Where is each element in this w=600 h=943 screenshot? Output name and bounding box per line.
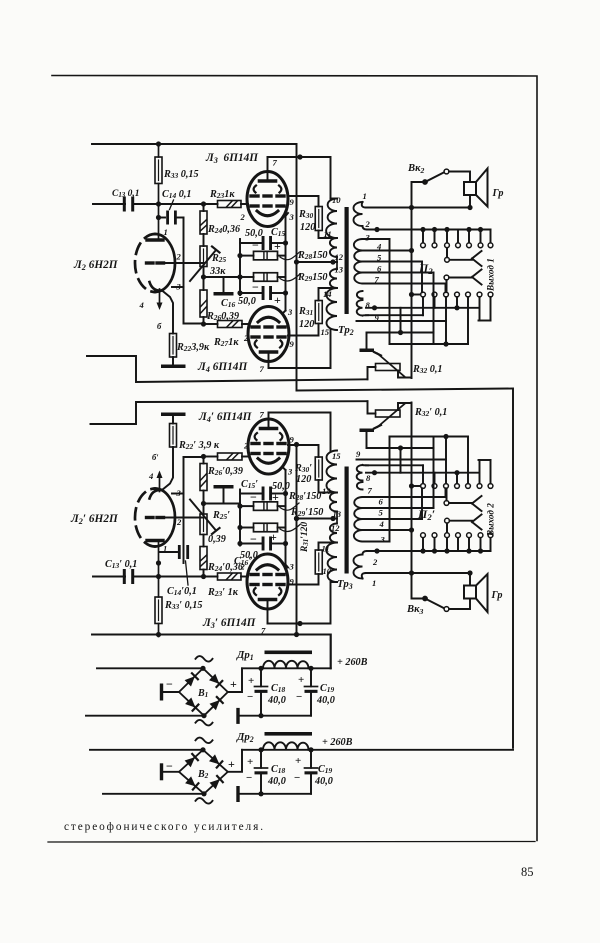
wire speaker feed <box>449 599 470 610</box>
wire R32 right lead <box>398 371 412 378</box>
resistor R28 <box>240 255 254 257</box>
speaker Gr box <box>464 182 476 195</box>
svg-text:1: 1 <box>372 578 376 588</box>
wire maze v389 <box>389 239 391 344</box>
svg-text:15: 15 <box>321 327 330 337</box>
svg-text:С18: С18 <box>271 764 286 775</box>
resistor R28 <box>240 505 254 507</box>
wire L3 anode to trafo <box>267 600 269 624</box>
wire maze v389 <box>389 437 391 542</box>
svg-text:6: 6 <box>379 497 384 507</box>
svg-text:12: 12 <box>331 523 340 533</box>
svg-text:+: + <box>228 757 235 771</box>
wire maze v400 <box>400 308 402 333</box>
svg-text:9: 9 <box>375 313 380 323</box>
label leader C14 ch1 <box>170 200 174 210</box>
capacitor C16 <box>240 543 262 545</box>
wire minus lead PSU1 <box>162 691 179 693</box>
speaker Gr horn <box>476 169 488 207</box>
diode of V1 <box>209 674 219 684</box>
svg-text:3: 3 <box>289 212 295 222</box>
resistor R30 <box>315 207 322 231</box>
wire center tap <box>297 261 338 263</box>
svg-text:14: 14 <box>322 486 331 496</box>
resistor R23 <box>218 573 242 580</box>
wire plus rail PSU2 <box>242 749 513 751</box>
svg-text:R28′150: R28′150 <box>288 491 321 502</box>
capacitor C15 <box>240 242 262 244</box>
svg-text:9: 9 <box>290 339 295 349</box>
output fork 1 <box>472 251 482 259</box>
svg-text:8: 8 <box>366 300 371 310</box>
wire AC input top PSU2 <box>90 749 203 751</box>
pentode tube L3 <box>247 172 288 227</box>
output fork 2 <box>472 270 482 278</box>
svg-text:б: б <box>157 321 162 331</box>
wire ground rail PSU1 <box>238 715 311 717</box>
switch P2 contact row lower <box>421 484 426 489</box>
resistor R25 variable <box>200 514 207 535</box>
wire L3 screen pin9 <box>288 196 319 207</box>
wire Vk pivot down <box>412 182 426 378</box>
switch Vk blade <box>422 596 428 602</box>
svg-text:+: + <box>270 530 277 544</box>
svg-text:С16: С16 <box>221 298 236 309</box>
switch P2 contact row upper <box>422 538 424 551</box>
svg-text:1: 1 <box>363 191 367 201</box>
svg-text:7: 7 <box>261 626 266 636</box>
svg-text:−: − <box>252 238 259 252</box>
resistor R27 <box>204 323 218 325</box>
transformer primary winding lower <box>327 269 338 330</box>
wire tap2 contact bus <box>363 226 368 230</box>
wire tap10 link <box>331 581 338 583</box>
wire tap8 <box>366 307 479 309</box>
svg-text:R33′ 0,15: R33′ 0,15 <box>164 600 202 611</box>
svg-text:R28150: R28150 <box>297 250 328 261</box>
wire R32 left lead <box>368 401 376 413</box>
label leader R29 <box>280 525 300 532</box>
wire tap5 <box>363 261 423 263</box>
svg-text:15: 15 <box>332 451 341 461</box>
wire Vk pivot down <box>412 403 426 599</box>
svg-text:−: − <box>252 280 259 294</box>
svg-text:2: 2 <box>240 562 246 572</box>
svg-text:П2′: П2′ <box>417 507 435 522</box>
wire R32 left lead <box>368 367 376 379</box>
svg-text:R33 0,15: R33 0,15 <box>163 169 199 180</box>
wire input <box>93 203 125 205</box>
choke Dr2 coil <box>263 742 309 749</box>
choke Dr1 coil <box>263 661 309 668</box>
wire maze v445 <box>445 488 447 497</box>
svg-text:2: 2 <box>372 557 378 567</box>
svg-text:R26′0,39: R26′0,39 <box>207 466 243 477</box>
svg-text:33к: 33к <box>209 266 226 277</box>
svg-text:12: 12 <box>335 252 344 262</box>
capacitor C18 PSU2 <box>260 750 262 768</box>
svg-text:R25: R25 <box>211 253 227 264</box>
svg-text:3: 3 <box>380 535 386 545</box>
minus terminal bar PSU1 <box>160 684 163 701</box>
svg-text:+: + <box>274 293 281 307</box>
page footer rule <box>48 841 535 844</box>
svg-text:R23′ 1к: R23′ 1к <box>207 587 239 598</box>
svg-text:11: 11 <box>322 544 330 554</box>
wire L4 screen pin9 <box>288 445 319 457</box>
svg-text:R271к: R271к <box>213 337 239 348</box>
transformer core <box>345 467 349 574</box>
resistor R26 <box>200 290 207 317</box>
svg-text:+: + <box>248 675 254 687</box>
svg-text:+: + <box>230 677 237 691</box>
svg-text:2: 2 <box>176 517 182 527</box>
capacitor C15 <box>240 493 262 495</box>
svg-text:120: 120 <box>296 474 311 485</box>
svg-text:5: 5 <box>379 508 384 518</box>
wire maze y344 <box>390 436 469 438</box>
resistor R22 <box>170 334 177 358</box>
wire line C <box>91 401 368 424</box>
wire grid node <box>158 204 160 240</box>
svg-text:Гр: Гр <box>492 188 504 199</box>
wire rail feed PSU1 <box>330 635 332 669</box>
AC tilde bottom PSU2 <box>196 798 213 804</box>
svg-text:40,0: 40,0 <box>316 695 335 706</box>
svg-text:R29150: R29150 <box>297 272 328 283</box>
wire tap3 <box>363 541 390 543</box>
switch P2 pivot 1 <box>445 518 450 523</box>
svg-text:С14 0,1: С14 0,1 <box>162 189 192 200</box>
svg-text:6: 6 <box>377 264 382 274</box>
wire tap7 <box>363 283 446 285</box>
capacitor C13 <box>123 197 126 212</box>
switch P2 pivot 2 <box>444 501 449 506</box>
resistor R33 <box>155 597 162 624</box>
label leader R29 <box>280 274 300 281</box>
output fork 2 <box>472 504 482 512</box>
svg-text:3: 3 <box>287 467 293 477</box>
switch P2 contact row upper <box>422 230 424 243</box>
svg-text:+: + <box>298 674 304 686</box>
capacitor C14 <box>160 551 177 553</box>
wire block left vertical <box>239 490 241 546</box>
wire L2 anode <box>164 262 204 264</box>
minus terminal bar PSU2 <box>160 763 163 780</box>
svg-text:9: 9 <box>290 577 295 587</box>
wire maze y321 <box>357 459 447 461</box>
svg-text:−: − <box>166 677 173 691</box>
switch P2 contact row lower <box>421 292 426 297</box>
transformer primary winding upper <box>326 199 337 258</box>
resistor R23 <box>218 201 242 208</box>
wire R25-R26 junction <box>203 267 205 291</box>
wire B+ vertical ch1 <box>296 144 298 391</box>
switch P2 pivot 2 <box>444 275 449 280</box>
wire R31 to tap14 <box>319 288 338 301</box>
wire L4 anode to trafo <box>268 352 270 368</box>
resistor R24 <box>200 211 207 234</box>
svg-text:9: 9 <box>290 435 295 445</box>
wire row2 stubs <box>434 297 436 308</box>
wire maze v422 <box>421 488 423 519</box>
svg-text:2: 2 <box>176 252 182 262</box>
label leader R28 <box>280 253 299 260</box>
svg-text:С15′: С15′ <box>241 479 258 490</box>
wire input to R23 <box>134 576 218 578</box>
svg-text:С13′ 0,1: С13′ 0,1 <box>105 559 137 570</box>
svg-text:40,0: 40,0 <box>267 695 286 706</box>
svg-text:2: 2 <box>240 212 246 222</box>
capacitor C18 PSU1 <box>260 668 262 686</box>
svg-text:+ 260В: + 260В <box>337 657 368 668</box>
svg-text:85: 85 <box>521 865 534 879</box>
wire tap4 <box>363 250 412 252</box>
diode of V1 <box>210 700 220 710</box>
wire plus lead PSU2 <box>228 750 242 772</box>
svg-text:3: 3 <box>176 282 182 292</box>
svg-text:Л4 6П14П: Л4 6П14П <box>197 361 248 374</box>
diode of V2 <box>209 754 220 764</box>
wire R30 to tap11 <box>319 543 338 551</box>
svg-text:R32 0,1: R32 0,1 <box>412 364 443 375</box>
wire maze y332 <box>367 332 434 334</box>
svg-text:+ 260В: + 260В <box>322 737 353 748</box>
transformer secondary winding d <box>357 465 363 481</box>
wire AC input bottom PSU1 <box>86 715 204 717</box>
ground terminal bar PSU2 <box>236 786 239 802</box>
wire tap10 link <box>331 198 338 200</box>
transformer primary winding lower <box>327 451 338 512</box>
label leader R28 <box>280 503 299 510</box>
svg-text:R30: R30 <box>298 209 314 220</box>
wire tap1 <box>362 573 366 579</box>
svg-text:С13 0,1: С13 0,1 <box>112 189 140 199</box>
wire input <box>93 576 125 578</box>
wire L2 anode <box>164 517 204 519</box>
svg-text:С14′0,1: С14′0,1 <box>167 586 197 597</box>
svg-text:4: 4 <box>376 242 382 252</box>
svg-text:Выход 2: Выход 2 <box>486 503 496 537</box>
resistor R27 <box>204 456 218 458</box>
svg-text:С18: С18 <box>271 683 286 694</box>
wire cathode-junction <box>204 276 241 278</box>
svg-text:+: + <box>274 239 281 253</box>
triode tube L2 <box>155 234 175 292</box>
svg-text:Л4′ 6П14П: Л4′ 6П14П <box>198 411 253 424</box>
svg-text:С19: С19 <box>318 764 333 775</box>
wire tap4 <box>363 529 412 531</box>
svg-text:3: 3 <box>287 307 293 317</box>
diode of V2 <box>210 779 220 789</box>
wire L3 anode to trafo <box>267 157 269 181</box>
speaker Gr horn <box>476 574 488 612</box>
svg-text:10: 10 <box>332 195 341 205</box>
choke Dr1 core <box>265 651 313 655</box>
wire cathode bus right <box>285 470 287 565</box>
svg-text:В2: В2 <box>197 769 209 780</box>
svg-text:Л3 6П14П: Л3 6П14П <box>205 152 259 165</box>
wire maze v433 <box>433 448 435 508</box>
wire maze y332 <box>367 447 434 449</box>
svg-text:40,0: 40,0 <box>314 776 333 787</box>
wire tap9 <box>363 464 369 466</box>
wire plus lead PSU1 <box>228 668 242 692</box>
pentode tube L4 <box>248 307 289 362</box>
bridge rectifier V1 diamond <box>179 668 228 715</box>
svg-text:120: 120 <box>299 319 314 330</box>
diode of V2 <box>185 776 196 786</box>
resistor R32 variable <box>376 364 401 371</box>
svg-text:11: 11 <box>324 229 332 239</box>
svg-text:стереофонического усилителя.: стереофонического усилителя. <box>64 821 265 833</box>
resistor R33 <box>155 157 162 184</box>
wire cathode bus right <box>285 216 287 311</box>
diode of V2 <box>185 757 196 767</box>
transformer secondary winding a <box>354 202 363 226</box>
wire C14 down-leg <box>183 218 185 324</box>
svg-text:Л3′ 6П14П: Л3′ 6П14П <box>202 617 257 630</box>
svg-text:Л2 6Н2П: Л2 6Н2П <box>73 259 119 272</box>
svg-text:−: − <box>294 772 300 784</box>
svg-text:1: 1 <box>163 544 167 554</box>
transformer secondary winding b <box>354 239 363 284</box>
wire maze v445 <box>445 284 447 293</box>
wire R23 to tube <box>241 576 248 578</box>
ground near R32 <box>366 432 368 448</box>
svg-text:7: 7 <box>375 275 380 285</box>
output fork 1 <box>472 522 482 530</box>
svg-text:13: 13 <box>335 265 344 275</box>
wire tap2 contact bus <box>363 551 368 555</box>
ground C16 bar <box>223 277 225 292</box>
svg-text:2: 2 <box>243 333 249 343</box>
resistor R31 <box>315 301 322 324</box>
chassis bar R22 <box>172 416 174 424</box>
svg-text:−: − <box>250 532 257 546</box>
svg-text:120: 120 <box>300 222 315 233</box>
wire maze v422 <box>421 262 423 293</box>
pentode tube L3 <box>247 554 288 609</box>
svg-text:Л2′ 6Н2П: Л2′ 6Н2П <box>70 513 119 526</box>
transformer primary winding upper <box>326 524 337 583</box>
svg-text:R240,36: R240,36 <box>207 224 241 235</box>
label leader C14 ch2 <box>186 561 189 585</box>
wire L3 screen pin9 <box>288 574 319 585</box>
svg-text:−: − <box>246 772 252 784</box>
ground C16 bar <box>223 489 225 504</box>
wire R30 to tap11 <box>319 231 338 239</box>
transformer secondary winding d <box>357 300 363 316</box>
transformer secondary winding a <box>354 555 363 579</box>
svg-text:13: 13 <box>333 509 342 519</box>
svg-text:1: 1 <box>164 227 168 237</box>
wire tap1 <box>362 202 366 208</box>
svg-text:7: 7 <box>260 410 265 420</box>
svg-text:R30′: R30′ <box>294 463 312 474</box>
capacitor C19 PSU1 <box>310 668 312 686</box>
wire grid node <box>158 541 160 577</box>
svg-text:7: 7 <box>260 364 265 374</box>
wire maze v433 <box>433 273 435 333</box>
diode of V1 <box>185 698 195 708</box>
wire bus ch2 <box>92 635 331 669</box>
svg-text:4: 4 <box>139 300 145 310</box>
wire R25-R26 junction <box>203 491 205 515</box>
diode of V1 <box>185 676 195 686</box>
wire maze y321 <box>357 320 447 322</box>
svg-text:7: 7 <box>273 158 278 168</box>
wire ground rail PSU2 <box>238 793 311 795</box>
switch P2 pivot 1 <box>445 257 450 262</box>
resistor R29 <box>240 527 254 529</box>
wire center tap <box>297 518 338 520</box>
wire maze v400 <box>400 448 402 473</box>
wire tap6 <box>363 507 434 509</box>
transformer secondary winding b <box>354 497 363 542</box>
ground terminal bar PSU1 <box>236 708 239 724</box>
wire tap9 <box>363 314 369 316</box>
svg-text:8: 8 <box>366 473 371 483</box>
svg-text:−: − <box>296 691 302 703</box>
wire tap5 <box>363 518 423 520</box>
wire AC input bottom PSU2 <box>103 793 204 795</box>
svg-text:С15: С15 <box>271 227 286 238</box>
svg-text:3: 3 <box>365 233 371 243</box>
wire tap6 <box>363 272 434 274</box>
wire L4 screen pin9 <box>288 324 319 336</box>
resistor R31 <box>315 457 322 480</box>
ground near R32 <box>366 333 368 349</box>
choke Dr2 core <box>265 732 313 736</box>
wire row2 stubs <box>434 473 436 484</box>
wire R31 to tap14 <box>319 480 338 493</box>
wire block left vertical <box>239 239 241 295</box>
svg-text:Вк2: Вк2 <box>407 163 424 175</box>
wire AC input top PSU1 <box>97 667 203 669</box>
pentode tube L4 <box>248 419 289 474</box>
wire minus lead PSU2 <box>162 771 179 773</box>
svg-text:−: − <box>250 490 257 504</box>
wire line A <box>87 356 368 382</box>
svg-text:R32′ 0,1: R32′ 0,1 <box>414 407 447 418</box>
svg-text:2: 2 <box>243 441 249 451</box>
svg-text:R223,9к: R223,9к <box>176 342 210 353</box>
resistor R24 <box>200 547 207 570</box>
resistor R22 <box>170 424 177 448</box>
transformer secondary winding c <box>357 482 363 490</box>
wire tap7 <box>363 496 446 498</box>
resistor R29 <box>240 276 254 278</box>
svg-text:0,39: 0,39 <box>208 534 226 545</box>
AC tilde bottom PSU1 <box>196 720 213 726</box>
svg-text:б′: б′ <box>152 452 159 462</box>
transformer core <box>345 207 349 314</box>
svg-text:R31: R31 <box>298 306 313 317</box>
svg-text:Гр: Гр <box>491 590 503 601</box>
AC tilde top PSU2 <box>196 738 213 744</box>
wire B+ top rail and right return <box>52 76 537 841</box>
wire line B <box>297 389 514 748</box>
svg-text:40,0: 40,0 <box>267 776 286 787</box>
wire R32 right lead <box>398 403 412 410</box>
svg-text:R260,39: R260,39 <box>206 311 239 322</box>
wire L2 cathode to R22 <box>162 291 173 334</box>
resistor R26 <box>200 464 207 491</box>
svg-text:4: 4 <box>379 519 385 529</box>
capacitor C19 PSU2 <box>310 750 312 768</box>
svg-text:14: 14 <box>323 289 332 299</box>
